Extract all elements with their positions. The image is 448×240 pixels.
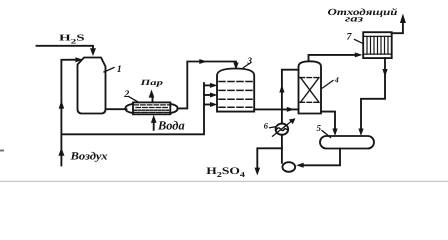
svg-text:1: 1 — [117, 64, 122, 75]
arrowhead gas into absorber — [287, 107, 295, 112]
leader label 3 — [244, 63, 252, 68]
arrowhead into converter dome — [233, 63, 238, 71]
arrowhead drain down mid — [382, 69, 387, 77]
label digit 1 — [117, 64, 122, 75]
arrowhead H2S into furnace — [90, 48, 96, 56]
boiler 2 hatching — [134, 105, 170, 113]
wire air riser — [61, 60, 78, 166]
svg-text:газ: газ — [345, 13, 363, 23]
wire H2S feed line — [37, 46, 94, 50]
faint page line bottom — [0, 180, 448, 182]
leader label 4 — [323, 81, 334, 89]
wire boiler to converter top — [178, 62, 236, 109]
arrowhead converter side feed bottom — [204, 104, 212, 106]
label H2S — [59, 34, 85, 46]
arrowhead converter side feed mid — [204, 94, 212, 96]
wire tank to pump — [302, 149, 340, 166]
cooler 6 circle — [276, 124, 289, 135]
svg-text:Вода: Вода — [157, 119, 185, 133]
arrowhead converter side feed top — [204, 84, 212, 86]
svg-text:5: 5 — [317, 123, 322, 133]
arrowhead into tank left — [332, 129, 337, 137]
wire air bus to converter riser — [61, 83, 204, 134]
converter 3 vessel — [217, 69, 254, 112]
arrowhead drain into tank — [358, 129, 363, 137]
arrowhead gas to converter mid — [199, 59, 207, 64]
boiler 2 left cap — [125, 104, 133, 113]
wire furnace outlet to boiler — [106, 108, 127, 110]
label exhaust gas line2 — [345, 13, 363, 23]
exchanger 7 tubes — [367, 36, 388, 54]
arrowhead steam up — [149, 90, 155, 98]
arrowhead gas into exchanger 7 — [355, 52, 363, 57]
leader label 5 — [322, 131, 331, 138]
svg-text:Воздух: Воздух — [69, 151, 107, 163]
label digit 7 — [347, 32, 353, 43]
exchanger 7 headers — [363, 35, 392, 37]
wire absorber outlet to tank — [321, 112, 335, 130]
leader label 2 — [129, 97, 140, 103]
cooler 6 diagonal arrow — [273, 121, 292, 136]
faint page mark left — [0, 150, 4, 152]
cooler 6 coil — [276, 128, 287, 131]
boiler 2 body — [133, 102, 170, 114]
label digit 3 — [247, 55, 253, 65]
wire water in — [153, 121, 155, 130]
wire cooler down to pump — [281, 135, 283, 163]
wire acid riser to absorber top — [282, 70, 299, 124]
label digit 4 — [334, 75, 339, 84]
arrowhead acid product down — [255, 168, 261, 176]
label H2SO4 — [206, 166, 245, 179]
svg-text:3: 3 — [247, 55, 253, 65]
leader label 1 — [104, 68, 114, 73]
label Voda (water) — [157, 119, 185, 133]
label digit 6 — [264, 121, 269, 131]
leader label 7 — [355, 40, 364, 44]
arrowhead air up mid — [59, 101, 65, 109]
tank 5 — [320, 136, 374, 149]
arrowhead water up — [151, 115, 157, 123]
absorber 4 vessel — [299, 61, 322, 113]
wire exchanger 7 drain to tank — [361, 58, 385, 130]
wire acid product tee — [257, 148, 282, 169]
wire absorber top to exchanger 7 — [309, 55, 359, 61]
arrowhead air into furnace slope — [75, 57, 83, 62]
svg-text:2: 2 — [123, 89, 129, 100]
furnace 1 vessel — [78, 58, 106, 114]
label exhaust gas line1 — [328, 8, 398, 18]
wire steam out — [152, 95, 154, 102]
label Par (steam) — [139, 79, 163, 88]
svg-text:Пар: Пар — [139, 79, 163, 88]
arrowhead exhaust up — [400, 14, 406, 24]
absorber 4 packing — [300, 78, 320, 103]
wire exhaust out — [392, 21, 403, 33]
pump — [282, 162, 295, 172]
svg-text:4: 4 — [334, 75, 339, 84]
leader label 6 — [270, 127, 276, 128]
boiler 2 right cap — [170, 104, 177, 113]
wire converter outlet to absorber — [254, 108, 298, 110]
arrowhead acid up — [279, 85, 284, 93]
converter 3 catalyst beds — [219, 82, 252, 108]
label digit 5 — [317, 123, 322, 133]
arrowhead into pump — [296, 163, 304, 168]
arrowhead air up lower — [58, 148, 64, 156]
label digit 2 — [123, 89, 129, 100]
label Vozdukh (air) — [69, 151, 107, 163]
exchanger 7 box — [363, 32, 392, 58]
